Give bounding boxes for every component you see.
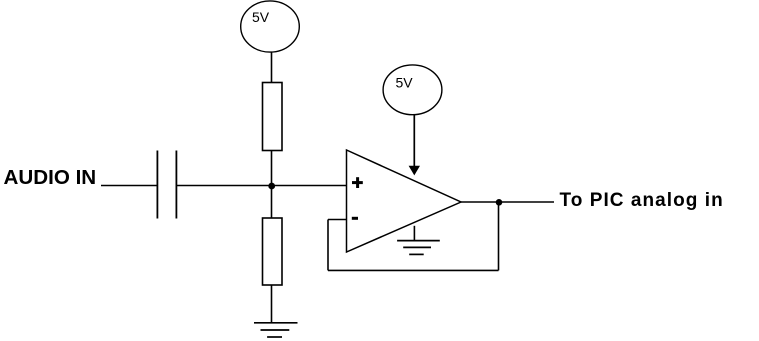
wire from R2 to ground: [271, 285, 273, 323]
svg-text:5V: 5V: [396, 74, 414, 90]
op-amp U1 triangle: [347, 150, 462, 252]
ground (below R2): [254, 323, 298, 337]
resistor R2 (lower divider): [263, 218, 283, 285]
wire from R1 through node to resistor R2: [271, 151, 273, 219]
feedback wire (right vertical to output node): [498, 202, 500, 270]
power supply 5V circle (op-amp): [383, 65, 442, 115]
op-amp minus input marker: [352, 217, 358, 220]
wire stub to inverting input: [328, 219, 347, 221]
wire from AUDIO IN to capacitor C1: [101, 185, 157, 187]
output node junction dot: [496, 199, 503, 206]
feedback wire (bottom horizontal): [328, 269, 499, 271]
ground (op-amp) stem: [413, 226, 415, 241]
wire from 5V circle to resistor R1: [271, 52, 273, 83]
svg-text:To PIC analog in: To PIC analog in: [560, 190, 724, 211]
power supply 5V circle (top): [241, 1, 300, 52]
resistor R1 (upper divider): [263, 83, 283, 151]
op-amp plus input marker: [352, 177, 363, 188]
ground (op-amp) bars: [397, 241, 440, 255]
svg-text:AUDIO IN: AUDIO IN: [4, 166, 97, 189]
wire from capacitor to op-amp non-inverting input: [176, 185, 346, 187]
feedback wire (left vertical): [327, 220, 329, 271]
svg-text:5V: 5V: [252, 9, 270, 25]
capacitor C1 right plate: [175, 151, 177, 219]
arrowhead into op-amp: [409, 166, 420, 176]
output wire from op-amp: [461, 201, 554, 203]
node junction dot on divider: [268, 183, 275, 190]
capacitor C1 left plate: [156, 151, 158, 219]
wire from 5V circle down to op-amp: [413, 115, 415, 167]
